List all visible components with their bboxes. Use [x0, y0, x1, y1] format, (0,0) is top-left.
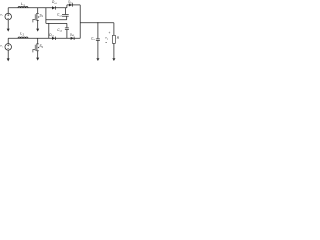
svg-text:+: + — [109, 31, 111, 35]
transistor S1 source lead — [37, 20, 39, 28]
capacitor Ca1 top plate — [62, 14, 69, 16]
label R — [117, 36, 120, 40]
wire top rail — [8, 7, 67, 9]
transistor S1 gate bar — [34, 14, 36, 20]
label Co — [91, 36, 96, 41]
wire source V1 top to rail — [7, 8, 9, 14]
label Db1 — [68, 0, 72, 4]
capacitor Ca1 stem — [64, 8, 66, 15]
node junction Co tap — [97, 22, 98, 23]
capacitor Ca2 bottom plate — [65, 29, 69, 31]
wire bar1 (Ca1 return) — [46, 19, 67, 21]
resistor R stem top — [113, 23, 115, 36]
label vin2 — [0, 44, 3, 49]
label L2 — [20, 32, 24, 37]
diode Da2 — [52, 37, 55, 40]
wire bottom rail — [8, 37, 80, 39]
svg-text:a2: a2 — [52, 36, 55, 38]
label vin1 — [0, 12, 3, 17]
source V1 bottom lead — [7, 20, 9, 29]
svg-text:b1: b1 — [70, 2, 72, 4]
ground arrow S1 — [36, 29, 39, 32]
source V2 bottom lead — [7, 50, 9, 59]
label S2 — [39, 44, 43, 49]
diode Db1 — [69, 3, 72, 6]
ground arrow V1 — [7, 29, 10, 32]
svg-text:b2: b2 — [72, 35, 74, 37]
svg-text:i: i — [2, 46, 3, 48]
inductor L1 — [18, 6, 28, 7]
ground arrow Co — [96, 58, 99, 61]
capacitor Co top plate — [96, 38, 100, 40]
transistor S2 drain bar — [36, 43, 39, 45]
label Ca2 — [57, 28, 63, 33]
label minus output — [105, 42, 107, 44]
node wire switch-node drop — [45, 8, 47, 24]
label Da2 — [49, 33, 55, 38]
svg-text:i: i — [2, 15, 3, 17]
label S1 — [39, 13, 43, 18]
label Da1 — [52, 0, 58, 5]
wire stub rail to Db1 wire — [66, 5, 68, 8]
resistor R body — [113, 35, 116, 43]
svg-text:a1: a1 — [54, 3, 57, 5]
transistor S1 drain bar — [36, 12, 39, 14]
capacitor Ca2 top plate — [65, 27, 69, 29]
source V2 (bottom input) — [5, 44, 12, 51]
diode Da1 bar — [55, 6, 57, 9]
diode Da2 bar — [55, 37, 57, 40]
transistor S1 source bar — [36, 19, 39, 21]
resistor R stem bottom — [113, 43, 115, 58]
label L1 — [21, 2, 25, 7]
wire bar2 (Ca2 link) — [46, 22, 67, 24]
wire bar1 up-link to Ca1 — [66, 16, 68, 19]
source V1 plus mark — [7, 14, 9, 16]
transistor S1 drain lead — [37, 8, 39, 14]
transistor S2 arrow mark — [38, 47, 39, 49]
label vo — [105, 36, 109, 41]
source V2 minus mark — [7, 48, 9, 50]
ground arrow V2 — [7, 58, 10, 61]
wire output rail — [80, 22, 114, 24]
diode Db2 — [71, 37, 74, 40]
capacitor Ca2 stem bottom — [66, 30, 68, 39]
transistor S1 channel bar — [36, 13, 38, 20]
capacitor Ca1 bottom plate — [62, 15, 69, 17]
diode Da1 — [52, 6, 55, 9]
diode Db2 bar — [73, 37, 75, 40]
inductor L2 — [18, 37, 28, 38]
label Ca1 — [57, 13, 63, 18]
svg-text:2: 2 — [23, 33, 25, 36]
transistor S1 gate lead — [33, 19, 35, 22]
svg-text:R: R — [117, 36, 120, 40]
wire upper diode run — [67, 4, 80, 6]
svg-text:o: o — [107, 38, 109, 40]
svg-text:1: 1 — [42, 16, 44, 18]
capacitor Co bottom plate — [96, 39, 100, 41]
capacitor Co stem bottom — [97, 41, 99, 59]
capacitor Co stem top — [97, 23, 99, 39]
svg-text:o: o — [94, 39, 96, 41]
source V1 (top input) — [5, 13, 12, 20]
label plus output — [109, 31, 111, 35]
transistor S1 arrow mark — [38, 16, 39, 18]
diode Db1 bar — [72, 3, 74, 6]
wire bar2 drop to bottom rail — [48, 23, 50, 38]
source V1 minus mark — [7, 17, 9, 19]
wire source V2 top to rail — [7, 38, 9, 44]
ground arrow S2 — [36, 58, 39, 61]
transistor S2 source bar — [36, 50, 39, 52]
transistor S2 gate lead — [33, 49, 35, 52]
source V2 plus mark — [7, 44, 9, 46]
ground arrow R — [112, 58, 115, 61]
svg-text:a2: a2 — [60, 31, 63, 33]
transistor S2 drain lead — [37, 38, 39, 44]
label Db2 — [70, 33, 74, 38]
transistor S2 channel bar — [36, 44, 38, 51]
wire output bus vertical — [79, 5, 81, 39]
transistor S2 gate bar — [34, 45, 36, 51]
svg-text:2: 2 — [42, 47, 44, 49]
transistor S2 source lead — [37, 51, 39, 58]
capacitor Ca2 stem top — [66, 23, 68, 27]
